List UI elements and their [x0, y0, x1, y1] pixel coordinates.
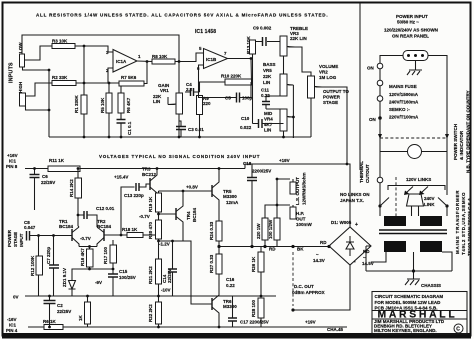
svg-text:THERMAL: THERMAL: [359, 161, 364, 183]
svg-text:~: ~: [316, 252, 319, 257]
wire speaker feed: [219, 246, 329, 248]
svg-text:H.P.: H.P.: [296, 211, 304, 216]
svg-text:BC212: BC212: [142, 172, 157, 177]
svg-text:LIN: LIN: [263, 80, 270, 85]
svg-text:VOLUME: VOLUME: [319, 64, 338, 69]
wire TR2 base: [104, 234, 127, 236]
svg-text:POWER: POWER: [323, 95, 341, 100]
wire VR1 bottom: [178, 114, 180, 137]
svg-text:CUTOUT: CUTOUT: [365, 164, 370, 183]
svg-text:LINK: LINK: [424, 202, 435, 207]
svg-text:IC1B: IC1B: [206, 57, 217, 62]
svg-text:D1: W005: D1: W005: [331, 220, 352, 225]
svg-text:TS102 TAPAN TSO15 C.S.A.: TS102 TAPAN TSO15 C.S.A.: [467, 197, 472, 256]
capacitor C5 100p: [199, 82, 252, 98]
svg-text:-0.7V: -0.7V: [80, 236, 91, 241]
svg-text:+16V: +16V: [7, 153, 18, 158]
wire R1 column: [83, 46, 85, 137]
wire R3 to IC1A pin3: [75, 46, 113, 52]
transformer primary left: [384, 216, 406, 226]
svg-text:120V/1500mA: 120V/1500mA: [389, 92, 419, 97]
svg-text:ON REAR PANEL: ON REAR PANEL: [392, 34, 429, 39]
transformer core: [379, 230, 447, 234]
svg-text:14.3V: 14.3V: [313, 258, 325, 263]
node junction R3/R1: [83, 45, 86, 48]
svg-text:& INDICATOR: & INDICATOR: [459, 130, 464, 160]
svg-text:-: -: [354, 259, 356, 265]
svg-text:L.S. OUTPUT: L.S. OUTPUT: [295, 177, 300, 205]
bottom border bar: [2, 333, 471, 339]
svg-text:MAINS FUSE: MAINS FUSE: [389, 84, 417, 89]
svg-text:R12 100K: R12 100K: [30, 255, 35, 276]
wire preamp ground rail: [49, 136, 311, 138]
svg-text:2.2: 2.2: [186, 87, 193, 92]
wire R9 bottom: [199, 115, 201, 138]
svg-text:C15: C15: [119, 269, 128, 274]
svg-text:LIN: LIN: [153, 99, 160, 104]
svg-text:JAPAN T.X.: JAPAN T.X.: [340, 198, 364, 203]
svg-text:R17 100: R17 100: [103, 246, 108, 264]
svg-text:MAINS TRANSFORMER: MAINS TRANSFORMER: [455, 190, 460, 254]
svg-text:0V: 0V: [13, 295, 19, 300]
svg-text:TR4: TR4: [186, 211, 191, 220]
svg-text:C1 0.1: C1 0.1: [127, 121, 132, 135]
wire -1.2V node: [159, 239, 184, 241]
svg-text:IC1 1458: IC1 1458: [195, 29, 216, 35]
svg-text:IC1A: IC1A: [116, 59, 127, 64]
svg-text:0.22: 0.22: [226, 283, 235, 288]
svg-text:22K: 22K: [263, 74, 272, 79]
capacitor C3 0.01: [176, 127, 186, 130]
svg-text:VR5: VR5: [263, 68, 272, 73]
svg-text:HIGH: HIGH: [18, 82, 23, 93]
svg-text:FOR MODEL 5005M 12W LEAD: FOR MODEL 5005M 12W LEAD: [375, 300, 442, 305]
svg-text:C3 0.01: C3 0.01: [188, 127, 204, 132]
svg-text:IC1: IC1: [9, 323, 17, 328]
svg-text:NO LINKS ON: NO LINKS ON: [340, 192, 370, 197]
secondary wires: [366, 246, 452, 279]
svg-text:INPUT: INPUT: [19, 233, 24, 247]
svg-text:R18 1K: R18 1K: [122, 227, 138, 232]
svg-text:CHASSIS: CHASSIS: [421, 283, 441, 288]
svg-text:R2 33K: R2 33K: [52, 75, 68, 80]
svg-text:-10V: -10V: [161, 288, 171, 293]
svg-text:R8 10K: R8 10K: [152, 54, 168, 59]
svg-text:C17 2200/25V: C17 2200/25V: [240, 320, 269, 325]
svg-text:R7 5K6: R7 5K6: [121, 75, 137, 80]
wire R10 feedback loop: [199, 59, 252, 83]
svg-text:100mW: 100mW: [296, 222, 313, 227]
svg-text:MILTON KEYNES, ENGLAND.: MILTON KEYNES, ENGLAND.: [374, 328, 437, 333]
wire to thermal cutout: [379, 152, 381, 178]
svg-text:22/25V: 22/25V: [167, 269, 172, 283]
dashed DC out line: [292, 252, 294, 306]
svg-text:50/60 Hz ~: 50/60 Hz ~: [397, 20, 419, 25]
wire high jack to R2: [26, 83, 53, 96]
svg-text:+15.4V: +15.4V: [114, 175, 128, 180]
svg-text:TR3: TR3: [142, 167, 151, 172]
diode inside bridge: [346, 236, 354, 256]
svg-text:R26 1K: R26 1K: [251, 256, 256, 272]
jack L.S. wires: [277, 179, 293, 207]
svg-text:22/25V: 22/25V: [41, 180, 55, 185]
svg-text:C6: C6: [42, 174, 48, 179]
svg-text:R5 10K: R5 10K: [100, 97, 105, 113]
wire IC1A output: [137, 60, 152, 63]
link arrows: [406, 187, 413, 194]
svg-text:120V LINKS: 120V LINKS: [406, 177, 431, 182]
svg-text:+0.8V: +0.8V: [186, 185, 198, 190]
svg-text:SEMKO :-: SEMKO :-: [389, 107, 410, 112]
svg-text:+: +: [355, 222, 358, 228]
jack HIGH: [20, 93, 26, 106]
dashed tap line: [395, 177, 397, 216]
node ON dot: [378, 116, 382, 120]
svg-text:POWER INPUT: POWER INPUT: [396, 14, 428, 19]
chassis ground: [405, 279, 420, 285]
wire C13 column: [121, 187, 135, 235]
svg-text:RD: RD: [320, 240, 327, 245]
svg-text:220: 220: [203, 101, 211, 106]
svg-text:100/25V: 100/25V: [119, 275, 136, 280]
svg-text:C7 220p: C7 220p: [46, 246, 51, 264]
svg-text:R1 330K: R1 330K: [74, 94, 79, 113]
jack LOW: [20, 54, 25, 67]
transformer primary right: [420, 216, 442, 226]
svg-text:N.B. TYPE DEPENDANT ON COUNTRY: N.B. TYPE DEPENDANT ON COUNTRY: [466, 90, 471, 173]
svg-text:CIRCUIT SCHEMATIC DIAGRAM: CIRCUIT SCHEMATIC DIAGRAM: [375, 294, 444, 299]
svg-text:-1.2V: -1.2V: [159, 242, 170, 247]
switch blade right: [445, 204, 448, 207]
wire IC1B output: [228, 58, 252, 60]
wire R7 feedback: [108, 62, 147, 84]
svg-text:BASS: BASS: [263, 62, 276, 67]
wire R2 to pin2 column: [76, 68, 113, 83]
op-amp IC1B: [204, 49, 228, 69]
switch blade left: [378, 204, 381, 207]
svg-text:C: C: [456, 327, 460, 333]
svg-text:LIN: LIN: [264, 128, 271, 133]
wire -9V node: [72, 267, 113, 280]
svg-text:R20 470: R20 470: [148, 221, 153, 239]
svg-text:T49L2 STD,USA,SEMKO: T49L2 STD,USA,SEMKO: [461, 192, 466, 255]
svg-text:C12 0.01: C12 0.01: [96, 206, 115, 211]
svg-text:ON: ON: [369, 117, 376, 122]
capacitor C1 0.1: [117, 120, 126, 124]
jack L.S. output: [290, 182, 296, 194]
jack H.P. out: [290, 207, 296, 219]
svg-text:1K: 1K: [78, 314, 83, 321]
wire +16V rail: [25, 168, 245, 170]
svg-text:2200/25V: 2200/25V: [252, 169, 271, 174]
indicator lamp: [408, 145, 422, 159]
svg-text:POWER: POWER: [7, 229, 12, 247]
svg-text:C10: C10: [241, 116, 250, 121]
svg-text:PIN 8: PIN 8: [6, 164, 18, 169]
wire high jack down: [23, 67, 50, 137]
svg-text:R6 4K7: R6 4K7: [126, 97, 131, 113]
svg-text:VOLTAGES TYPICAL NO SIGNAL CON: VOLTAGES TYPICAL NO SIGNAL CONDITION 240…: [99, 154, 260, 159]
svg-text:RD: RD: [269, 247, 276, 252]
svg-text:R16 4K7: R16 4K7: [80, 248, 85, 266]
svg-text:R19 1K: R19 1K: [148, 196, 153, 212]
svg-text:INPUTS: INPUTS: [9, 62, 15, 83]
svg-text:D.C. OUT: D.C. OUT: [294, 284, 314, 289]
capacitor C7: [49, 265, 59, 268]
svg-text:120/220/240V AS SHOWN: 120/220/240V AS SHOWN: [384, 28, 438, 33]
svg-text:C5: C5: [225, 96, 231, 101]
svg-text:CHA.45: CHA.45: [327, 327, 344, 332]
svg-text:240V/T160mA: 240V/T160mA: [389, 100, 419, 105]
wire low jack to R3: [25, 46, 53, 60]
svg-text:MID: MID: [264, 111, 273, 116]
svg-text:100 1/2W: 100 1/2W: [268, 219, 273, 239]
wire bridge bottom: [293, 265, 350, 310]
copyright circle: [454, 324, 463, 333]
svg-text:100p: 100p: [242, 96, 253, 101]
svg-text:R14 2K2: R14 2K2: [69, 179, 74, 197]
wire TR6 base: [183, 241, 212, 304]
power section separator: [359, 3, 361, 170]
dashed gang line: [380, 137, 447, 139]
wire R5 column: [108, 83, 110, 137]
fuse contacts: [377, 80, 383, 86]
svg-text:12mA: 12mA: [226, 200, 239, 205]
transformer secondary right: [420, 241, 442, 252]
svg-text:R28 100: R28 100: [251, 299, 256, 317]
svg-text:-9V: -9V: [95, 280, 102, 285]
svg-text:22K LIN: 22K LIN: [290, 36, 307, 41]
svg-text:R24 0.33: R24 0.33: [209, 221, 214, 240]
svg-text:STAGE: STAGE: [323, 100, 338, 105]
svg-text:OUTPUT TO: OUTPUT TO: [323, 89, 349, 94]
svg-text:IC1: IC1: [9, 159, 17, 164]
wire bridge top: [347, 164, 350, 227]
svg-text:12WRMS/8ohm: 12WRMS/8ohm: [302, 172, 307, 205]
svg-text:VR1: VR1: [160, 88, 169, 93]
svg-text:+19V: +19V: [305, 320, 316, 325]
svg-text:1M LOG: 1M LOG: [319, 75, 337, 80]
svg-text:C9 0.002: C9 0.002: [253, 26, 272, 31]
svg-text:ALL RESISTORS 1/4W UNLESS STAT: ALL RESISTORS 1/4W UNLESS STATED. ALL CA…: [36, 13, 328, 18]
wire common emitters: [79, 246, 97, 248]
svg-text:C13 220p: C13 220p: [124, 193, 144, 198]
wire top feedback: [22, 35, 179, 93]
wire -16V rail: [28, 326, 347, 328]
svg-text:C16: C16: [226, 277, 235, 282]
svg-text:RD: RD: [363, 249, 370, 254]
svg-text:R21 2K2: R21 2K2: [148, 266, 153, 284]
title block box: [372, 292, 467, 335]
op-amp IC1A: [113, 50, 137, 73]
svg-text:ZD1 9.1V: ZD1 9.1V: [62, 268, 67, 287]
wiper VR2 output: [315, 87, 348, 165]
svg-text:VR2: VR2: [319, 70, 328, 75]
svg-text:4K7: 4K7: [264, 122, 273, 127]
svg-text:-0.7V: -0.7V: [139, 214, 150, 219]
svg-text:R22 2K2: R22 2K2: [148, 304, 153, 322]
svg-text:+19V: +19V: [279, 158, 290, 163]
wiper VR5: [287, 85, 293, 139]
svg-text:-16V: -16V: [7, 317, 17, 322]
svg-text:240V: 240V: [424, 196, 435, 201]
wire live to switch: [380, 56, 403, 64]
svg-text:R11 1K: R11 1K: [49, 158, 65, 163]
wire volume bottom: [310, 98, 312, 137]
svg-text:BC184: BC184: [59, 224, 74, 229]
earth ground symbol: [407, 70, 422, 75]
svg-text:BC184: BC184: [192, 207, 197, 222]
wire mid bottom to rail: [284, 131, 294, 138]
svg-text:ON: ON: [367, 66, 374, 71]
svg-text:220 1W: 220 1W: [256, 223, 261, 239]
mains connector: [403, 51, 428, 61]
svg-text:OUT: OUT: [296, 217, 306, 222]
svg-text:M3300: M3300: [223, 304, 237, 309]
svg-text:POWER SWITCH: POWER SWITCH: [453, 124, 458, 160]
earth lead: [415, 61, 417, 71]
svg-text:VR4: VR4: [264, 117, 273, 122]
wiper VR4: [287, 116, 293, 119]
svg-text:BK: BK: [297, 247, 304, 252]
wire neutral right: [428, 56, 447, 196]
svg-text:R10 220K: R10 220K: [221, 74, 242, 79]
svg-text:R3 10K: R3 10K: [52, 39, 68, 44]
svg-text:0dBm APPROX: 0dBm APPROX: [292, 290, 325, 295]
wiper VR1: [168, 97, 176, 105]
svg-text:C2: C2: [57, 303, 63, 308]
wire TR5 base: [159, 191, 213, 193]
capacitor C18: [247, 178, 257, 181]
wire R8 to IC1B: [175, 53, 204, 62]
svg-text:0.047: 0.047: [24, 225, 36, 230]
svg-text:STAGE: STAGE: [13, 232, 18, 247]
svg-text:M3300: M3300: [223, 194, 237, 199]
transformer secondary left: [384, 241, 406, 252]
svg-text:R27 0.33: R27 0.33: [209, 254, 214, 273]
svg-text:220V/T100mA: 220V/T100mA: [389, 115, 419, 120]
svg-text:PIN 4: PIN 4: [6, 328, 18, 333]
svg-text:22/25V: 22/25V: [57, 309, 71, 314]
svg-text:C11: C11: [261, 88, 270, 93]
svg-text:0.022: 0.022: [240, 125, 252, 130]
wire C1/R6 column: [120, 83, 122, 137]
